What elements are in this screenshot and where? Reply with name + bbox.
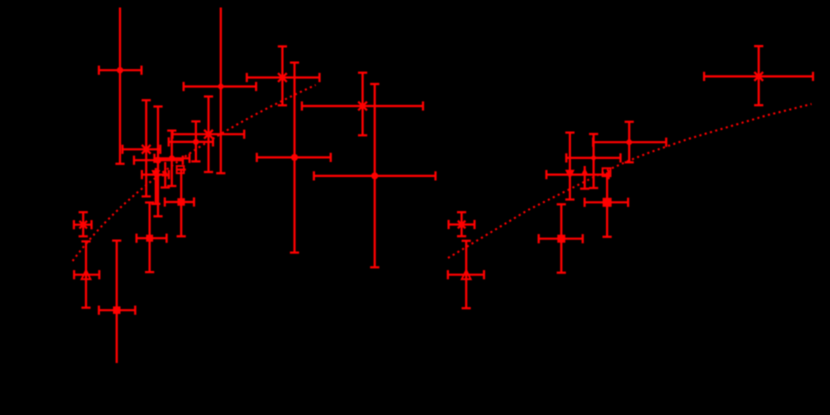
data point L5 (star) <box>123 100 161 196</box>
data point L8 (circle) <box>257 63 331 253</box>
data point L15 (square) <box>165 170 194 237</box>
data point L1 (circle) <box>99 8 142 164</box>
data point L19 (square) <box>137 203 167 273</box>
left fit curve (dotted) <box>73 85 316 261</box>
data point R1 (star) <box>704 46 813 105</box>
right fit curve (dotted) <box>448 104 812 258</box>
data point R7 (square) <box>585 172 629 237</box>
data point R8 (star) <box>449 212 475 236</box>
data point L2 (diamond) <box>184 8 257 174</box>
data point L4 (star) <box>302 73 423 136</box>
data point R2 (diamond) <box>593 122 666 163</box>
data point L7 (star) <box>173 97 245 173</box>
data point L14 (open square) <box>177 166 184 173</box>
data point R5 (triangle-up) <box>580 166 589 189</box>
data point L16 (star) <box>74 212 92 236</box>
data point R6 (open square) <box>603 168 611 176</box>
data point R4 (triangle-down) <box>546 133 608 200</box>
data point L18 (square) <box>99 241 135 363</box>
data point L6 (circle) <box>169 121 213 161</box>
data point R10 (square) <box>539 204 583 272</box>
data point R9 (open triangle) <box>448 241 484 308</box>
data point L11 (circle) <box>154 131 189 186</box>
data point L13 (triangle-up) <box>161 162 170 188</box>
data point L10 (circle) <box>134 107 183 217</box>
data point L12 (triangle-down) <box>142 168 169 204</box>
data point L3 (star) <box>247 46 320 105</box>
data point R3 (diamond) <box>566 134 620 188</box>
data point L17 (open triangle) <box>74 241 99 307</box>
data point L9 (circle) <box>314 84 436 267</box>
